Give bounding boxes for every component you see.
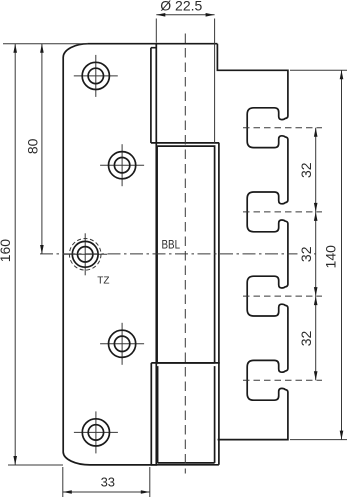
dim 33 extension right	[149, 467, 151, 497]
slot centerline S2	[243, 211, 322, 213]
svg-text:Ø 22.5: Ø 22.5	[160, 0, 202, 14]
dim 140 extension top	[290, 69, 347, 71]
dim 80 line	[41, 44, 43, 254]
hole H3 (TZ hole)	[63, 253, 107, 255]
svg-text:160: 160	[0, 239, 13, 263]
dim 160 extension top	[3, 43, 88, 45]
leaf plate outline	[63, 44, 156, 465]
svg-text:32: 32	[298, 331, 314, 347]
barrel top collar left edge	[150, 48, 152, 143]
middle knuckle	[157, 146, 215, 363]
bottom knuckle inner sleeve	[158, 366, 215, 463]
anchor plate outline with 4 claw slots	[217, 44, 288, 440]
hole H2	[100, 164, 144, 166]
hole H5	[74, 431, 118, 433]
dim 32 label b	[298, 245, 315, 264]
barrel top inner line (thin)	[214, 19, 216, 143]
hole H4	[100, 343, 144, 345]
dim 32 line	[315, 128, 317, 381]
svg-text:80: 80	[25, 138, 41, 154]
dim 140 extension bottom	[290, 439, 347, 441]
slot centerline S3	[243, 295, 322, 297]
hole H1	[74, 75, 118, 77]
svg-text:32: 32	[298, 246, 314, 262]
svg-text:BBL: BBL	[162, 239, 181, 252]
barrel top cap edges	[151, 44, 218, 48]
anchor plate left edge	[218, 143, 220, 465]
svg-text:TZ: TZ	[97, 276, 109, 287]
dim 33 extension left	[62, 467, 64, 497]
dim 33 line	[63, 491, 150, 493]
TZ dashed circle	[69, 239, 101, 271]
bottom knuckle collar	[151, 363, 219, 465]
barrel top knuckle bottom edge	[151, 142, 219, 144]
dim 160 extension bottom	[8, 464, 63, 466]
dim 22.5 line	[156, 14, 214, 16]
dim 160 line	[14, 44, 16, 465]
svg-text:140: 140	[322, 245, 338, 269]
dim 140 line	[341, 70, 343, 439]
svg-text:33: 33	[101, 475, 115, 490]
BBL center line (dash-dot)	[40, 253, 316, 255]
barrel centerline (dashed)	[184, 34, 186, 474]
svg-text:32: 32	[298, 162, 314, 178]
dim 22.5 extension left	[155, 19, 157, 43]
slot centerline S1	[243, 127, 322, 129]
slot centerline S4	[243, 379, 322, 381]
